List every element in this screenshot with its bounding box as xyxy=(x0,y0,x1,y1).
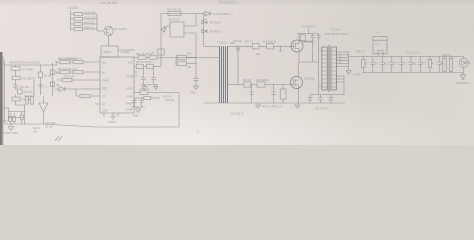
capacitor C16 on drop xyxy=(150,49,164,55)
optocoupler U3 xyxy=(161,14,196,58)
resistor R16 row4 xyxy=(76,89,100,98)
resistor R5 on right divider xyxy=(50,82,59,87)
svg-text:471: 471 xyxy=(403,64,408,66)
capacitor C41 below xyxy=(141,68,145,85)
svg-text:T1 EE16: T1 EE16 xyxy=(217,42,227,45)
svg-text:R42 R43: R42 R43 xyxy=(442,55,452,57)
ground G5 under T2 xyxy=(346,67,361,77)
stray pen mark xyxy=(55,136,62,142)
wire pin stubs right xyxy=(134,72,138,76)
stray text z xyxy=(197,130,199,134)
comparator D6 triangle xyxy=(39,96,48,124)
diode D7 top xyxy=(205,11,212,16)
resistor R4 on right divider xyxy=(50,70,59,75)
capacitor C35 xyxy=(418,57,426,73)
capacitor C6 bottom xyxy=(20,112,23,125)
svg-text:C9 104: C9 104 xyxy=(45,126,53,129)
diode taps lower xyxy=(336,76,344,95)
resistor R24 row2 xyxy=(134,62,154,68)
resistor R26 top xyxy=(167,9,182,16)
svg-text:VOUT_12 A: VOUT_12 A xyxy=(405,51,420,55)
svg-text:RAMP: RAMP xyxy=(126,102,134,106)
diode D9 xyxy=(202,30,222,34)
svg-text:PGND: PGND xyxy=(108,120,116,124)
capacitor C31 xyxy=(380,57,388,73)
wire divider vertical xyxy=(34,63,53,96)
resistor R21 feedback row xyxy=(134,88,179,94)
capacitor C27 gate B xyxy=(249,85,253,104)
svg-text:RV1 10D471: RV1 10D471 xyxy=(22,77,36,80)
svg-text:T2_04_P: T2_04_P xyxy=(331,29,341,32)
capacitor C28 gate B xyxy=(271,85,275,104)
resistor R101 xyxy=(71,11,98,16)
svg-text:SYNC: SYNC xyxy=(102,79,109,83)
svg-text:VCC12: VCC12 xyxy=(68,6,79,10)
capacitor C36 xyxy=(437,57,445,73)
wire right bus to Q1 xyxy=(97,14,104,31)
capacitor C4 bottom xyxy=(9,113,12,124)
svg-text:S-GND: S-GND xyxy=(353,75,361,77)
node label VOUT xyxy=(405,51,420,55)
node label DC2020V_A xyxy=(302,26,316,34)
resistor R2 xyxy=(16,89,34,94)
ground G6 output xyxy=(456,73,470,85)
wire diode chain vertical xyxy=(203,14,205,47)
wire feedback riser xyxy=(178,93,180,127)
wire mid horizontal xyxy=(16,105,27,124)
svg-text:NI: NI xyxy=(102,71,105,75)
diode D10 xyxy=(256,42,277,56)
diode D5 xyxy=(55,87,100,92)
svg-text:L2: L2 xyxy=(376,43,379,46)
resistor R40 xyxy=(362,57,368,73)
capacitor C3 xyxy=(31,97,34,106)
resistor R20 ramp row xyxy=(134,96,160,99)
svg-text:GND: GND xyxy=(190,92,196,95)
wire VCC12 vertical bus xyxy=(70,10,72,31)
svg-text:F1 T3.15A: F1 T3.15A xyxy=(22,68,34,71)
node junction labels xyxy=(33,127,41,134)
svg-text:C7: C7 xyxy=(44,86,48,89)
wire midpoint xyxy=(298,48,318,76)
svg-text:R24 1K C18 471: R24 1K C18 471 xyxy=(136,62,154,64)
resistor R42 end xyxy=(443,57,446,73)
ground under U1 xyxy=(108,113,116,124)
wire U1 out row to T1: stub xyxy=(134,57,138,59)
svg-text:VCC_PRI SET: VCC_PRI SET xyxy=(100,1,117,5)
capacitor C25 snubber xyxy=(303,34,315,62)
node label mid bottom xyxy=(45,122,56,129)
diode D8 xyxy=(202,20,222,25)
wire input top rail xyxy=(5,62,58,65)
svg-text:GD_A GD_B: GD_A GD_B xyxy=(230,113,243,116)
resistor R25 stack xyxy=(176,54,196,66)
wire Q3 source down xyxy=(298,85,300,103)
svg-text:D12: D12 xyxy=(467,63,472,65)
svg-text:CLKE: CLKE xyxy=(126,95,133,99)
wire T2 feed stubs xyxy=(319,50,322,86)
svg-text:DC2020V_A: DC2020V_A xyxy=(302,26,316,29)
diode D11 xyxy=(256,80,269,87)
wire Q1 to U2 xyxy=(108,36,110,46)
node label B+ xyxy=(213,12,233,16)
svg-text:OSC: OSC xyxy=(102,87,108,91)
svg-text:Q3 20N60: Q3 20N60 xyxy=(304,78,316,81)
svg-text:D9 FR107: D9 FR107 xyxy=(210,31,222,34)
capacitor C22 xyxy=(315,95,333,111)
capacitor C43 stack xyxy=(177,61,196,69)
svg-text:R26 47K 2W: R26 47K 2W xyxy=(167,9,182,12)
svg-text:R103 1K: R103 1K xyxy=(84,21,94,25)
svg-text:CX1 224: CX1 224 xyxy=(20,86,30,89)
resistor R103 xyxy=(71,21,98,26)
svg-text:1W: 1W xyxy=(33,131,37,134)
capacitor C21 xyxy=(318,95,322,104)
ground G3 xyxy=(190,86,199,95)
resistor R11 row1 left of U1 xyxy=(55,58,78,64)
svg-text:COMP: COMP xyxy=(125,108,133,112)
svg-text:R3 100K: R3 100K xyxy=(22,98,32,101)
fuse F1 xyxy=(11,65,33,76)
svg-text:z: z xyxy=(197,130,199,134)
transformer T2 main xyxy=(322,29,349,93)
svg-text:LXTR 5uH 60W 100W: LXTR 5uH 60W 100W xyxy=(324,33,348,36)
svg-text:D10: D10 xyxy=(256,54,261,56)
wire left lower xyxy=(17,104,19,106)
resistor R15 row3 xyxy=(57,76,100,82)
svg-text:C20 C21 472: C20 C21 472 xyxy=(315,109,329,111)
svg-text:RT: RT xyxy=(102,103,106,107)
svg-text:R6 1M: R6 1M xyxy=(44,75,51,78)
wire output rail start xyxy=(349,56,464,58)
capacitor C34 xyxy=(409,57,417,73)
wire primary bottom rail xyxy=(204,102,346,104)
wire Q2 drain up xyxy=(297,34,319,44)
svg-text:C24 102: C24 102 xyxy=(233,41,242,43)
svg-text:INV: INV xyxy=(102,61,107,65)
resistor R32 snubber xyxy=(300,35,305,42)
paper edge shadow left xyxy=(0,52,4,145)
resistor R22 xyxy=(136,53,153,59)
wire to T1 xyxy=(204,45,220,47)
capacitor C13 under U1 area xyxy=(117,113,119,117)
capacitor C15 xyxy=(139,98,143,107)
node label FB xyxy=(163,96,175,103)
resistor R104 xyxy=(71,26,98,31)
capacitor CX1 xyxy=(13,85,29,89)
svg-text:C16: C16 xyxy=(150,52,155,55)
svg-text:D10 1N4148: D10 1N4148 xyxy=(263,42,277,44)
svg-text:R104 1K: R104 1K xyxy=(84,26,94,30)
wire top rail xyxy=(161,13,205,15)
svg-text:L2: L2 xyxy=(377,31,380,34)
svg-text:B+/DC2020V_A: B+/DC2020V_A xyxy=(213,12,233,16)
node label T1 bottom xyxy=(230,113,243,116)
svg-text:RTN/GND_A: RTN/GND_A xyxy=(456,82,470,85)
svg-text:R25: R25 xyxy=(187,54,192,56)
capacitor C5 bottom xyxy=(13,113,16,124)
capacitor C26 bus xyxy=(317,34,321,88)
svg-text:471: 471 xyxy=(413,64,418,66)
svg-text:C43: C43 xyxy=(187,67,192,69)
svg-text:U3 PC817: U3 PC817 xyxy=(168,19,180,22)
wire gnd rail mid xyxy=(140,84,158,86)
svg-text:C19 102: C19 102 xyxy=(165,99,175,102)
svg-text:Q1 A1015: Q1 A1015 xyxy=(114,27,127,31)
IC U1 PWM controller xyxy=(100,48,135,113)
resistor R41 xyxy=(428,57,434,73)
resistor R27 xyxy=(245,42,259,49)
capacitor C20 xyxy=(308,95,312,104)
svg-text:R: R xyxy=(432,64,434,66)
resistor R3 xyxy=(12,94,31,105)
left section: AC input label xyxy=(9,61,41,65)
capacitor C30 xyxy=(371,57,379,73)
capacitor C40 row2 xyxy=(146,58,161,69)
capacitor C42 below xyxy=(152,68,156,85)
capacitor C2 xyxy=(24,96,34,104)
svg-text:D8 FR107: D8 FR107 xyxy=(210,22,222,25)
node label top edge xyxy=(219,0,238,4)
svg-text:C29 471: C29 471 xyxy=(356,51,365,53)
diode taps upper xyxy=(336,52,348,67)
wire opto drop xyxy=(160,14,162,58)
diode D12 output xyxy=(459,57,471,73)
ground G9 xyxy=(154,85,158,90)
svg-text:D11 1N4148: D11 1N4148 xyxy=(256,80,269,82)
wire small ground rail xyxy=(131,106,145,108)
svg-text:78L05: 78L05 xyxy=(103,50,111,54)
capacitor C24 on bias xyxy=(233,41,242,85)
stray top text xyxy=(100,1,117,5)
svg-text:471: 471 xyxy=(384,64,389,66)
transformer T1 drive xyxy=(217,42,235,104)
svg-text:GND: GND xyxy=(102,109,108,113)
varistor RV1 xyxy=(12,76,36,85)
capacitor C17 xyxy=(194,58,199,87)
svg-text:471: 471 xyxy=(441,64,446,66)
wire gate row A xyxy=(228,45,292,47)
svg-text:R15 4.7K: R15 4.7K xyxy=(64,76,75,79)
ground G2 xyxy=(133,107,141,118)
svg-text:VCC: VCC xyxy=(128,61,134,65)
svg-text:471: 471 xyxy=(374,64,379,66)
svg-text:GND: GND xyxy=(133,115,139,118)
wire snubber rail low xyxy=(310,88,344,95)
resistor R6 mid divider xyxy=(38,65,51,95)
resistor R13 row2 xyxy=(55,68,77,74)
ground G8 xyxy=(142,85,146,90)
transistor Q1 xyxy=(104,26,127,36)
node label C29 xyxy=(356,51,365,53)
ground G1 xyxy=(3,124,19,135)
regulator U2 xyxy=(101,46,130,57)
capacitor C7 mid xyxy=(38,85,48,89)
connector J1 xyxy=(2,108,25,121)
svg-text:OUTB: OUTB xyxy=(126,75,133,79)
mosfet Q3 xyxy=(291,77,316,89)
node VCC12 label top-left xyxy=(68,6,79,10)
ground G4 xyxy=(256,103,261,108)
wire gate row B xyxy=(228,84,291,86)
svg-text:R101 10K: R101 10K xyxy=(84,11,96,15)
svg-text:PROTECTION AC-IN 220V: PROTECTION AC-IN 220V xyxy=(9,61,41,65)
resistor R29 xyxy=(243,80,251,87)
svg-text:471: 471 xyxy=(422,64,427,66)
text VCC sense row xyxy=(58,58,82,61)
wire input vertical bus xyxy=(4,60,6,124)
diode D14 small xyxy=(279,46,282,51)
svg-text:R102 10K: R102 10K xyxy=(84,16,96,20)
capacitor C14 xyxy=(132,98,136,107)
svg-text:CT: CT xyxy=(102,95,106,99)
svg-text:R: R xyxy=(366,64,368,66)
resistor R43 end xyxy=(442,55,453,73)
svg-text:VCC12 SENSE IN+ A: VCC12 SENSE IN+ A xyxy=(58,58,82,61)
mosfet Q2 xyxy=(291,40,316,52)
resistor R102 xyxy=(71,16,98,21)
resistor R12 xyxy=(73,60,100,63)
wire output ground rail xyxy=(362,72,464,74)
resistor R31 sense xyxy=(280,85,286,104)
svg-text:R4: R4 xyxy=(56,72,60,75)
svg-text:PGND_A PGND_A: PGND_A PGND_A xyxy=(262,106,282,109)
svg-text:R2 510K: R2 510K xyxy=(24,91,34,94)
resistor R23 xyxy=(146,56,219,59)
capacitor C12 under U1 left xyxy=(103,113,105,117)
resistor R14 xyxy=(73,70,100,73)
svg-text:U1 SG3525A: U1 SG3525A xyxy=(118,48,135,52)
svg-text:EARTH GND1: EARTH GND1 xyxy=(3,132,19,135)
capacitor C32 xyxy=(390,57,398,73)
inductor L2 xyxy=(373,31,387,57)
svg-text:R27 22: R27 22 xyxy=(245,42,253,44)
svg-text:JP_DC2020V_A: JP_DC2020V_A xyxy=(219,0,238,4)
svg-text:471: 471 xyxy=(393,64,398,66)
svg-text:R29 22: R29 22 xyxy=(243,80,251,82)
wire bottom rail left xyxy=(5,124,180,127)
wire U1 left pin stubs xyxy=(95,103,100,105)
svg-text:OUTA: OUTA xyxy=(126,87,133,91)
capacitor C33 xyxy=(399,57,407,73)
ground G7 xyxy=(262,103,300,109)
